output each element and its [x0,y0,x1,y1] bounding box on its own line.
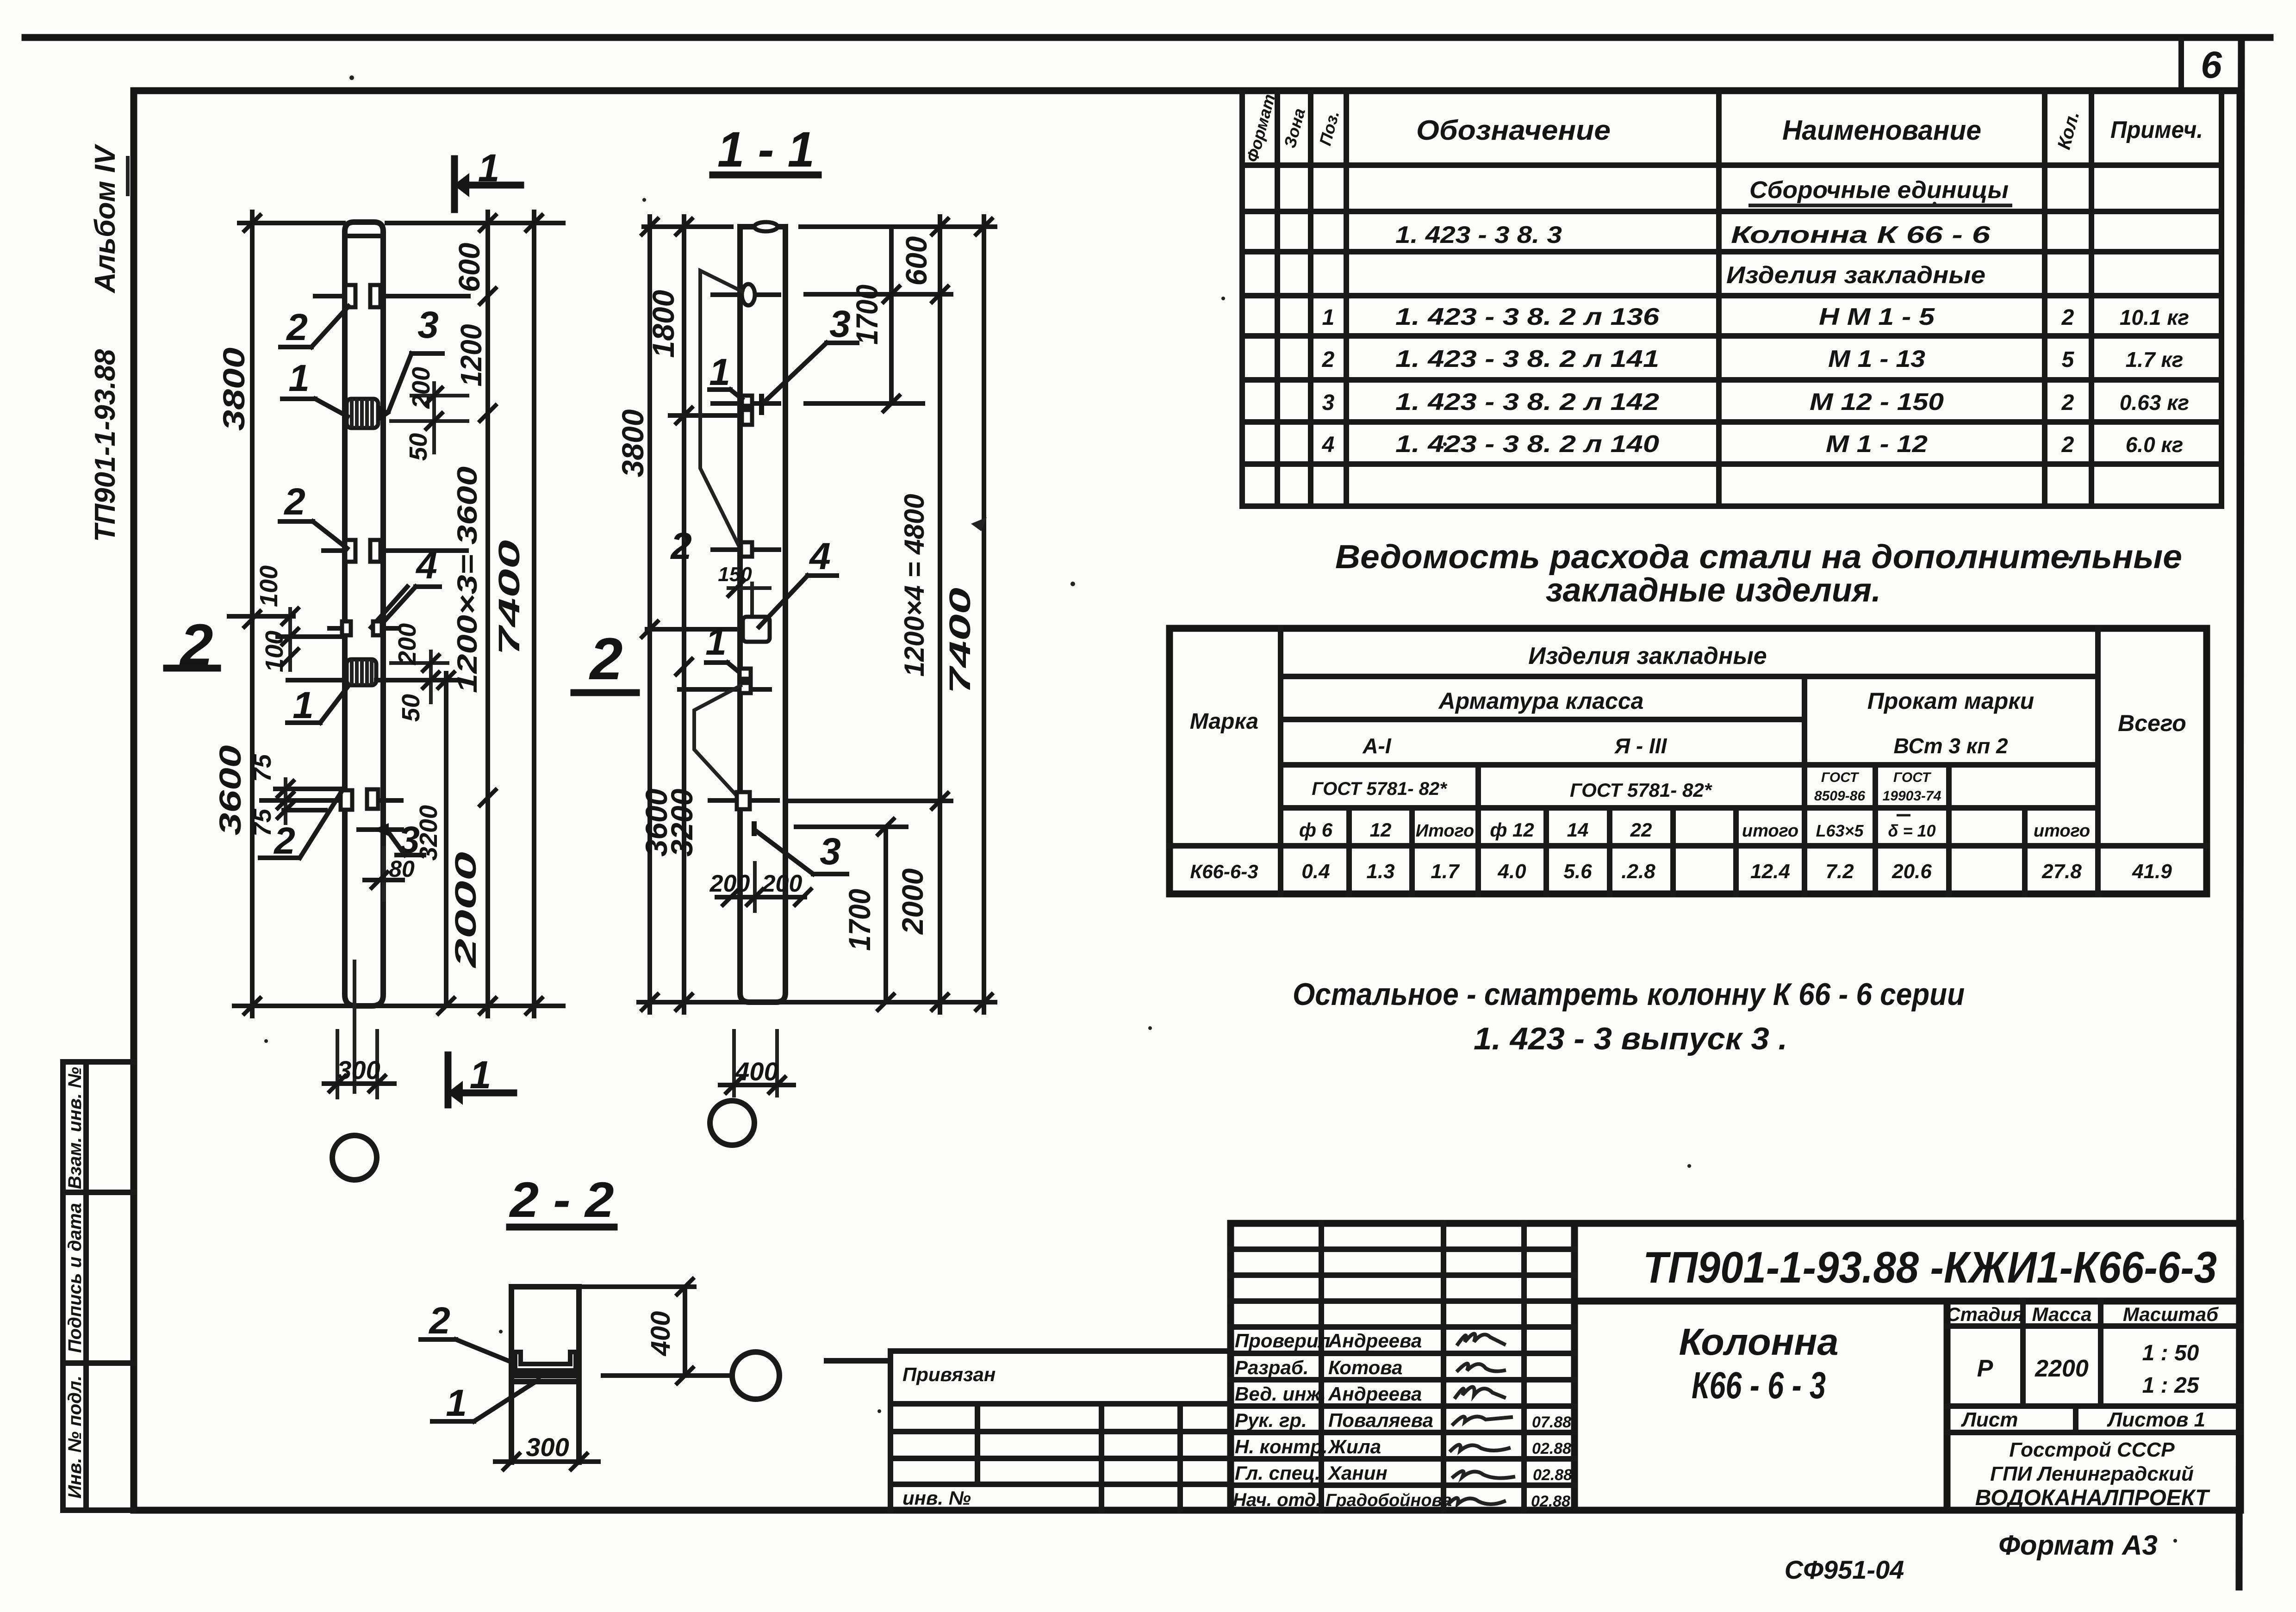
svg-text:400: 400 [646,1311,676,1357]
label 4 (1-1) [759,535,837,627]
svg-text:ГОСТ: ГОСТ [1893,770,1932,785]
svg-text:4: 4 [809,535,831,577]
svg-text:закладные изделия.: закладные изделия. [1546,572,1881,609]
extension line 1800 bottom [670,413,738,418]
svg-text:3200: 3200 [665,788,699,856]
chain dim line 600/1200/1200x3/2000 [449,212,496,1016]
channel embed pos2 (2-2) [511,1352,579,1382]
svg-text:М 12 - 150: М 12 - 150 [1810,389,1944,415]
svg-text:.2.8: .2.8 [1621,860,1655,883]
svg-text:6.0 кг: 6.0 кг [2126,433,2184,457]
svg-text:ГПИ Ленинградский: ГПИ Ленинградский [1990,1463,2194,1485]
svg-text:М 1 - 12: М 1 - 12 [1826,431,1928,458]
view title 2-2 [509,1172,614,1228]
svg-text:2000: 2000 [449,852,482,968]
svg-text:М 1 - 13: М 1 - 13 [1828,346,1925,372]
leader 4 [371,545,440,627]
svg-text:02.88: 02.88 [1532,1440,1571,1457]
svg-text:Стадия: Стадия [1946,1303,2023,1325]
svg-text:1. 423 - 3 8. 3: 1. 423 - 3 8. 3 [1395,222,1562,248]
svg-text:22: 22 [1630,819,1652,841]
svg-text:Ханин: Ханин [1327,1462,1388,1484]
steel table [1170,628,2207,894]
svg-text:2: 2 [1322,347,1335,372]
block bottom line extending right [376,678,456,682]
svg-text:1200×4 = 4800: 1200×4 = 4800 [899,494,930,677]
label 1 (lower mid 1-1) [705,621,740,673]
svg-text:Арматура класса: Арматура класса [1438,688,1644,714]
svg-text:8509-86: 8509-86 [1814,788,1865,804]
right trim border [2239,37,2241,1587]
mid embed (pos2, 1-1) [713,542,779,557]
svg-text:1 - 1: 1 - 1 [717,121,815,177]
small dim 200/50 (lower) [391,623,448,722]
svg-text:3800: 3800 [217,347,251,431]
joint lines and 100/100 dim [229,565,345,680]
svg-text:1200: 1200 [454,324,488,387]
leader 3 (upper) [389,304,442,411]
svg-text:100: 100 [261,631,288,672]
svg-text:СФ951-04: СФ951-04 [1785,1555,1904,1584]
datum circle (2-2) [732,1352,779,1399]
svg-text:1 : 25: 1 : 25 [2142,1373,2200,1398]
svg-text:1. 423 - 3 8. 2 л 140: 1. 423 - 3 8. 2 л 140 [1395,431,1659,458]
dim 1700 (upper right) [806,227,951,411]
top extension line [239,221,343,225]
svg-text:2: 2 [428,1300,450,1342]
leader line left of privyazan box [827,1358,890,1364]
svg-text:10.1 кг: 10.1 кг [2120,305,2189,329]
svg-text:2200: 2200 [2035,1355,2089,1382]
dim 150 [718,563,770,617]
top trim line [25,34,2270,41]
label 1 (2-2) [432,1380,539,1424]
svg-text:2: 2 [286,306,308,348]
svg-text:3800: 3800 [616,409,650,477]
label 1 (upper 1-1) [709,351,742,399]
svg-text:А-I: А-I [1362,734,1392,758]
svg-text:3600: 3600 [213,745,247,835]
svg-text:ф 6: ф 6 [1299,819,1333,841]
svg-text:ТП901-1-93.88 -КЖИ1-К66-6-3: ТП901-1-93.88 -КЖИ1-К66-6-3 [1643,1243,2217,1292]
svg-text:50: 50 [404,433,432,461]
svg-text:Проверил: Проверил [1235,1330,1331,1352]
column body (left view) [345,222,383,1006]
embed pos2 center line (top) [315,294,345,298]
section cut mark 1 (bottom) [447,1053,514,1105]
section mark 2 (right) [574,626,636,693]
svg-text:4: 4 [1322,433,1335,457]
svg-text:2: 2 [2061,391,2074,415]
embed pos2 flanges (mid) [345,540,380,562]
svg-text:Изделия закладные: Изделия закладные [1726,262,1985,289]
svg-text:Масштаб: Масштаб [2123,1303,2219,1325]
section 2-2 outline [511,1287,579,1462]
title block [1231,1223,2240,1510]
svg-text:итого: итого [1742,821,1798,841]
svg-text:Р: Р [1977,1355,1993,1382]
svg-text:Обозначение: Обозначение [1416,115,1611,146]
svg-text:Андреева: Андреева [1328,1330,1422,1352]
embed pos1 pair (lower, 1-1) [679,669,770,693]
svg-text:Гл. спец.: Гл. спец. [1235,1462,1320,1484]
kolonna name box [1944,1301,1951,1510]
svg-text:Альбом IV: Альбом IV [89,143,121,294]
embed pos1 pair (upper) [713,394,779,425]
dim 7400 (1-1) [943,217,992,1012]
column axis line [353,961,356,1092]
svg-text:Наименование: Наименование [1782,115,1981,146]
svg-text:200: 200 [393,623,421,665]
svg-text:2000: 2000 [896,868,929,935]
embed pos4 pair [330,621,399,635]
bent leader pos2 (lower) [694,686,740,796]
title block signature column verticals [1319,1223,1324,1510]
svg-text:3: 3 [1322,391,1335,415]
3200 dim line [415,672,454,1014]
svg-text:Колонна К 66 - 6: Колонна К 66 - 6 [1731,222,1991,248]
embed pos1 hatched block (upper) [347,399,378,428]
privyazan grid [975,1404,980,1484]
svg-text:Листов 1: Листов 1 [2107,1408,2205,1431]
svg-text:600: 600 [453,243,486,292]
svg-text:200: 200 [709,870,750,897]
svg-text:Вед. инж.: Вед. инж. [1235,1383,1326,1405]
svg-text:07.88: 07.88 [1532,1414,1571,1431]
svg-text:3200: 3200 [415,805,442,861]
steel horizontals [1281,674,2098,679]
leader 3 (lower) and 80 dim [359,819,424,900]
bottom embed (pos2, 1-1) [710,792,951,809]
svg-text:Остальное - сматреть колон: Остальное - сматреть колонну К 66 - 6 се… [1293,977,1965,1012]
svg-text:1 : 50: 1 : 50 [2142,1341,2199,1365]
svg-text:ВОДОКАНАЛПРОЕКТ: ВОДОКАНАЛПРОЕКТ [1975,1486,2210,1510]
handwritten signatures [1458,1334,1504,1345]
svg-text:2: 2 [2061,433,2074,457]
svg-text:19903-74: 19903-74 [1883,788,1941,804]
svg-text:41.9: 41.9 [2132,860,2172,883]
svg-text:1: 1 [292,684,314,726]
label 2 (2-2) [421,1300,513,1363]
pos3 washer (lower 1-1) [752,821,906,836]
svg-text:Лист: Лист [1961,1408,2018,1431]
svg-text:2: 2 [670,525,692,567]
svg-text:27.8: 27.8 [2041,860,2082,883]
leader 1 (lower) [287,684,348,726]
svg-text:4: 4 [415,545,437,587]
svg-text:1: 1 [478,146,500,190]
dim 200/200 [709,863,811,911]
7400 dim line [492,212,542,1016]
svg-text:1.7: 1.7 [1431,860,1460,883]
300 dim (left view base) [324,1031,394,1097]
svg-text:1. 423 - 3 8. 2 л 142: 1. 423 - 3 8. 2 л 142 [1395,389,1659,415]
svg-text:400: 400 [734,1057,778,1086]
svg-text:ГОСТ 5781- 82*: ГОСТ 5781- 82* [1312,779,1448,799]
list / listov row [1947,1403,2240,1409]
svg-text:14: 14 [1567,819,1589,841]
title block outer [1231,1223,2240,1510]
svg-text:Изделия закладные: Изделия закладные [1528,643,1767,670]
svg-text:Марка: Марка [1190,709,1258,734]
svg-text:1700: 1700 [842,889,877,951]
svg-text:1: 1 [470,1053,492,1097]
svg-text:1: 1 [1322,305,1335,330]
svg-text:Подпись и дата: Подпись и дата [65,1203,85,1353]
svg-text:3: 3 [417,304,439,346]
embed pos2 center line (mid) [324,548,345,553]
svg-text:7400: 7400 [492,540,526,656]
svg-text:L63×5: L63×5 [1816,821,1864,840]
svg-text:ГОСТ 5781- 82*: ГОСТ 5781- 82* [1570,779,1712,801]
svg-text:600: 600 [900,236,933,286]
stadiya massa masshtab [2020,1301,2026,1406]
svg-text:ГОСТ: ГОСТ [1821,770,1860,785]
svg-text:75: 75 [249,808,276,837]
embed pos1 hatched block (lower) [347,659,376,685]
svg-text:2: 2 [283,481,305,523]
bottom extension line (1-1) [639,1000,995,1004]
svg-text:Всего: Всего [2118,710,2186,736]
svg-text:Н М 1 - 5: Н М 1 - 5 [1819,304,1935,330]
svg-text:1800: 1800 [646,290,680,358]
specification table (top right) [1242,92,2221,506]
leader 2 (lower) [260,793,341,862]
svg-text:300: 300 [526,1432,569,1462]
svg-text:К66 - 6 - 3: К66 - 6 - 3 [1692,1364,1826,1407]
svg-text:02.88: 02.88 [1533,1466,1572,1484]
svg-text:0.4: 0.4 [1301,860,1330,883]
section mark 2 (left) [167,612,218,678]
svg-text:δ = 10: δ = 10 [1888,821,1935,840]
leader 1 (upper) [282,357,348,416]
svg-text:Ведомость расхода стали: Ведомость расхода стали на дополнительны… [1335,539,2182,576]
svg-text:К66-6-3: К66-6-3 [1190,861,1258,882]
svg-text:02.88: 02.88 [1531,1493,1570,1510]
svg-text:Инв. № подл.: Инв. № подл. [65,1376,85,1499]
embed pos2 level line (75/75 joint) [261,789,401,810]
svg-text:2: 2 [2061,305,2074,330]
svg-text:Котова: Котова [1328,1357,1403,1378]
svg-text:1: 1 [705,621,727,663]
svg-text:Госстрой СССР: Госстрой СССР [2009,1438,2175,1461]
svg-text:Взам. инв. №: Взам. инв. № [65,1067,85,1189]
svg-text:1: 1 [288,357,310,399]
small dim 200/50 (upper) [391,367,467,461]
svg-text:7.2: 7.2 [1825,860,1854,883]
steel consumption heading [1335,539,2182,609]
svg-text:200: 200 [762,870,803,897]
note text [1293,977,1965,1056]
spec table verticals [1239,93,1245,506]
svg-text:1200×3= 3600: 1200×3= 3600 [452,466,483,693]
svg-text:20.6: 20.6 [1892,860,1932,883]
spec table horizontals [1242,162,2221,168]
svg-text:итого: итого [2034,821,2090,841]
svg-text:Андреева: Андреева [1328,1383,1422,1405]
embed pos3 wedge (upper) [378,404,391,422]
svg-text:5.6: 5.6 [1563,860,1592,883]
label 3 (upper 1-1) [765,303,857,402]
400 dim (1-1 base) [720,1031,794,1096]
svg-text:1. 423 - 3 выпуск 3 .: 1. 423 - 3 выпуск 3 . [1474,1021,1787,1056]
page number box "6" [2181,40,2241,91]
svg-text:1700: 1700 [850,285,884,345]
svg-text:1.7 кг: 1.7 кг [2126,347,2184,372]
section cut mark 1 (top) [454,146,521,210]
dim line 1800/3200 (1-1) [646,217,699,1012]
top embed oval (pos2) [713,284,779,305]
label 3 (lower 1-1) [757,831,847,874]
svg-text:300: 300 [337,1055,380,1085]
left stamp strip: Vzam.inv box [63,1062,134,1510]
svg-text:12: 12 [1370,819,1392,841]
svg-text:Градобойнова: Градобойнова [1325,1491,1452,1510]
svg-text:50: 50 [397,694,425,722]
75/75 dim [249,754,293,837]
leader 2 (mid) [280,481,347,548]
svg-text:3: 3 [820,831,841,873]
svg-text:200: 200 [407,367,435,409]
svg-text:1.3: 1.3 [1366,860,1394,883]
svg-text:Примеч.: Примеч. [2110,117,2203,143]
svg-text:ф 12: ф 12 [1490,819,1534,841]
svg-text:12.4: 12.4 [1750,860,1790,883]
svg-text:1: 1 [709,351,730,393]
svg-text:Я - III: Я - III [1614,734,1668,758]
svg-text:Масса: Масса [2032,1303,2092,1325]
svg-text:Сборочные единицы: Сборочные единицы [1749,177,2009,204]
svg-text:Итого: Итого [1416,821,1474,841]
svg-text:1. 423 - 3 8. 2 л 136: 1. 423 - 3 8. 2 л 136 [1395,304,1660,330]
bent leader pos2 (upper) [700,271,742,547]
embed pos4 box (1-1) [743,617,770,642]
bottom margin texts [1785,1530,2158,1584]
svg-text:ТП901-1-93.88: ТП901-1-93.88 [89,349,121,542]
svg-text:150: 150 [718,563,752,586]
column body (1-1) [740,222,785,1002]
svg-text:Н. контр.: Н. контр. [1235,1436,1328,1457]
svg-text:Формат А3: Формат А3 [1998,1530,2158,1561]
svg-text:Привязан: Привязан [902,1364,996,1385]
svg-text:Разраб.: Разраб. [1235,1357,1309,1378]
svg-text:4.0: 4.0 [1497,860,1526,883]
svg-text:Жила: Жила [1327,1436,1381,1457]
bottom extension line [234,1004,563,1008]
joint extension line (1-1) [647,627,743,632]
embed pos2 flanges (top) [345,285,380,307]
svg-text:Нач. отд.: Нач. отд. [1233,1490,1321,1510]
svg-text:Прокат марки: Прокат марки [1867,688,2034,714]
svg-text:1: 1 [446,1382,467,1424]
big document code [1574,1298,2240,1305]
svg-text:5: 5 [2062,347,2075,372]
dim line 3800/3600 (1-1) [616,217,673,1012]
svg-text:Поваляева: Поваляева [1328,1409,1433,1431]
svg-text:Колонна: Колонна [1679,1321,1839,1363]
datum circle (1-1) [710,1101,754,1145]
svg-text:6: 6 [2201,44,2222,86]
svg-text:Рук. гр.: Рук. гр. [1235,1409,1307,1431]
svg-text:75: 75 [249,754,276,782]
datum circle (left view) [332,1135,377,1180]
300 dim (2-2) [495,1432,598,1469]
steel table outer box [1170,628,2207,894]
leader 2 (top) [280,306,348,348]
rotated margin title TP901-1-93.88 Albom IV [89,143,128,542]
svg-text:2: 2 [589,626,622,692]
svg-text:100: 100 [255,565,283,607]
title block signature rows [1231,1246,1574,1252]
svg-text:0.63 кг: 0.63 кг [2120,391,2189,415]
top extension line (1-1) [644,224,731,229]
scan specks [264,75,2177,1543]
steel verticals [1278,628,1283,894]
dim 1700 (lower right) [842,819,894,1010]
svg-text:инв. №: инв. № [902,1487,971,1509]
svg-text:ВСт 3 кп 2: ВСт 3 кп 2 [1893,734,2008,758]
svg-text:1. 423 - 3 8. 2 л 141: 1. 423 - 3 8. 2 л 141 [1395,346,1659,372]
left dim line 3800/3600 [213,212,260,1016]
svg-text:7400: 7400 [943,588,977,694]
svg-text:2 - 2: 2 - 2 [509,1172,614,1228]
view title 1-1 [713,121,818,177]
chain dim 600/1200x4/2000 (1-1) [896,217,948,1012]
privyazan box [890,1351,1231,1510]
svg-text:3: 3 [829,303,851,345]
400 dim (2-2) [579,1279,732,1383]
